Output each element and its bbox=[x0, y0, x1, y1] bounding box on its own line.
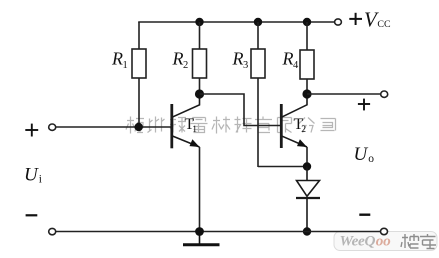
wire T1 emitter down bbox=[199, 147, 201, 232]
svg-text:1: 1 bbox=[123, 60, 128, 71]
node T1 collector bbox=[195, 89, 204, 98]
label input minus bbox=[26, 214, 38, 216]
terminal output minus bbox=[381, 228, 388, 234]
resistor R2 bbox=[193, 22, 207, 94]
label T1 bbox=[185, 116, 198, 135]
label R3 bbox=[232, 49, 249, 71]
svg-text:oo: oo bbox=[376, 233, 391, 250]
node diode-rail bbox=[303, 227, 311, 235]
label Uo bbox=[354, 144, 375, 165]
svg-text:4: 4 bbox=[293, 60, 299, 71]
label output plus bbox=[358, 99, 370, 111]
node emitter-ground bbox=[195, 227, 204, 236]
resistor R4 bbox=[300, 22, 314, 94]
diode D1 bbox=[296, 167, 320, 232]
node rail-R3 bbox=[254, 18, 262, 26]
label Ui bbox=[24, 164, 42, 185]
terminal output plus bbox=[381, 91, 388, 97]
terminal VCC bbox=[335, 19, 342, 25]
watermark company text bbox=[126, 117, 336, 134]
label R4 bbox=[282, 49, 300, 71]
svg-text:1: 1 bbox=[192, 125, 197, 135]
node R1-input bbox=[135, 123, 143, 131]
watermark weiku glyphs bbox=[401, 234, 436, 249]
svg-text:3: 3 bbox=[243, 60, 248, 71]
resistor R1 bbox=[132, 22, 146, 127]
svg-text:R: R bbox=[232, 49, 244, 69]
wire output plus bbox=[307, 93, 381, 95]
resistor R3 bbox=[251, 22, 265, 167]
svg-text:2: 2 bbox=[301, 125, 306, 135]
node rail-R2 bbox=[195, 18, 203, 26]
svg-text:U: U bbox=[354, 144, 369, 165]
wire top rail bbox=[138, 21, 334, 23]
svg-text:CC: CC bbox=[377, 19, 391, 30]
ground bbox=[183, 232, 220, 245]
wire input bbox=[56, 126, 171, 128]
label R2 bbox=[172, 49, 189, 71]
svg-text:o: o bbox=[368, 153, 374, 165]
transistor T1 bbox=[172, 94, 200, 148]
svg-text:i: i bbox=[39, 173, 42, 185]
svg-text:U: U bbox=[24, 164, 39, 185]
svg-text:WeeQ: WeeQ bbox=[340, 233, 376, 250]
transistor T2 bbox=[281, 94, 307, 148]
wire bottom rail bbox=[56, 231, 381, 233]
svg-text:R: R bbox=[282, 49, 294, 69]
svg-text:2: 2 bbox=[183, 60, 188, 71]
wire cross coupling bbox=[200, 94, 281, 126]
terminal input minus bbox=[49, 228, 56, 234]
node rail-R4 bbox=[303, 18, 311, 26]
node T2 collector bbox=[302, 89, 311, 98]
svg-text:R: R bbox=[172, 49, 184, 69]
arrow T1 emitter bbox=[190, 139, 200, 147]
label R1 bbox=[111, 49, 128, 71]
wire R3 to T2 emitter bbox=[258, 166, 307, 168]
svg-text:R: R bbox=[111, 49, 123, 69]
label output minus bbox=[359, 213, 370, 215]
wire T2 emitter down bbox=[306, 147, 308, 167]
label input plus bbox=[25, 124, 38, 137]
label T2 bbox=[294, 116, 307, 135]
watermark WeeQoo text bbox=[340, 233, 392, 250]
terminal input plus bbox=[49, 124, 56, 130]
label +VCC bbox=[349, 7, 391, 31]
node T2 emitter bbox=[303, 162, 311, 170]
watermark WeeQoo box bbox=[334, 232, 437, 251]
arrow T2 emitter bbox=[297, 139, 307, 147]
